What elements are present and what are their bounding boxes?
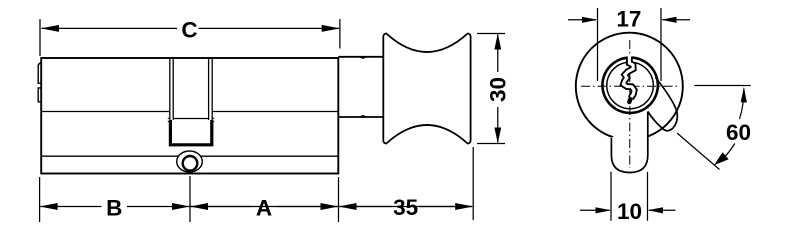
- svg-text:C: C: [181, 18, 197, 43]
- svg-text:B: B: [106, 196, 122, 221]
- svg-text:60: 60: [726, 120, 751, 145]
- svg-text:A: A: [256, 196, 272, 221]
- svg-text:35: 35: [393, 195, 418, 220]
- svg-text:17: 17: [616, 6, 641, 31]
- svg-text:10: 10: [617, 199, 642, 224]
- svg-text:30: 30: [486, 77, 511, 102]
